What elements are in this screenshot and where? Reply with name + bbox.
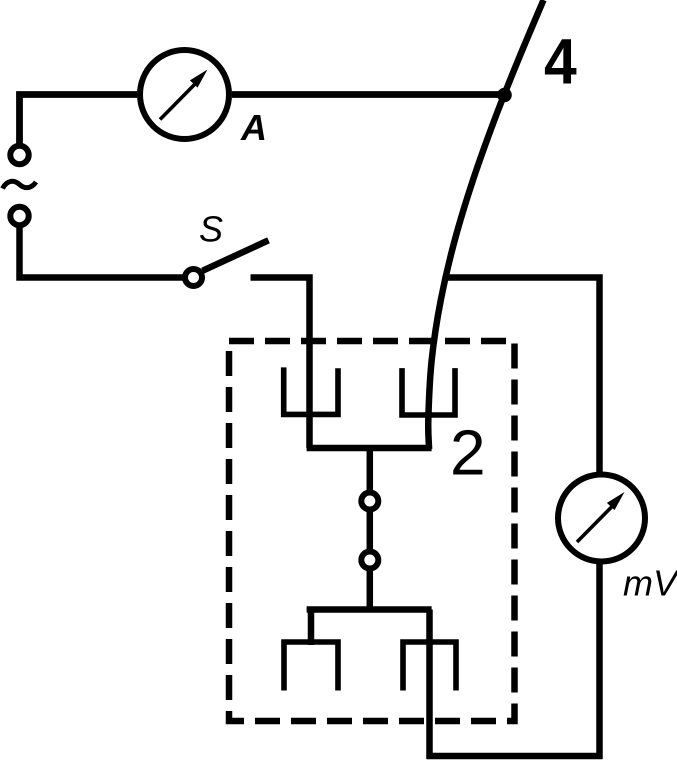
svg-text:S: S xyxy=(199,209,223,250)
svg-text:A: A xyxy=(240,107,267,148)
svg-text:4: 4 xyxy=(544,26,577,98)
svg-text:2: 2 xyxy=(450,417,486,489)
svg-text:mV: mV xyxy=(623,563,677,604)
